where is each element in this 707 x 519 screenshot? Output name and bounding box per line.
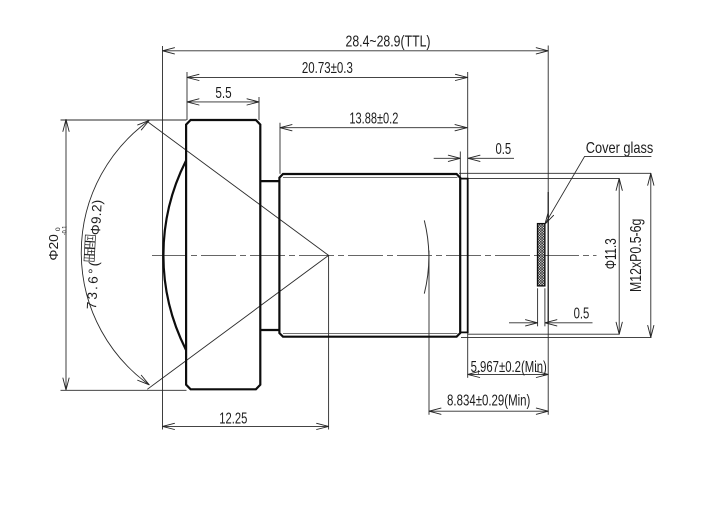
svg-text:28.4~28.9(TTL): 28.4~28.9(TTL) <box>346 34 431 51</box>
svg-text:Φ9.2): Φ9.2) <box>88 199 105 235</box>
svg-text:0.5: 0.5 <box>574 306 590 323</box>
svg-text:73.6°(: 73.6°( <box>84 261 101 310</box>
svg-text:20.73±0.3: 20.73±0.3 <box>302 60 353 77</box>
svg-text:5,967±0.2(Min): 5,967±0.2(Min) <box>471 359 547 376</box>
svg-text:M12xP0.5-6g: M12xP0.5-6g <box>628 219 645 292</box>
svg-text:Cover glass: Cover glass <box>586 140 654 157</box>
svg-text:Φ11.3: Φ11.3 <box>603 238 620 269</box>
svg-text:13.88±0.2: 13.88±0.2 <box>349 111 398 128</box>
svg-text:5.5: 5.5 <box>215 85 231 102</box>
svg-text:0.5: 0.5 <box>495 141 511 158</box>
svg-text:Φ20: Φ20 <box>47 234 61 261</box>
svg-text:8.834±0.29(Min): 8.834±0.29(Min) <box>447 392 530 409</box>
svg-text:-0.1: -0.1 <box>62 226 69 236</box>
svg-text:12.25: 12.25 <box>219 410 247 427</box>
